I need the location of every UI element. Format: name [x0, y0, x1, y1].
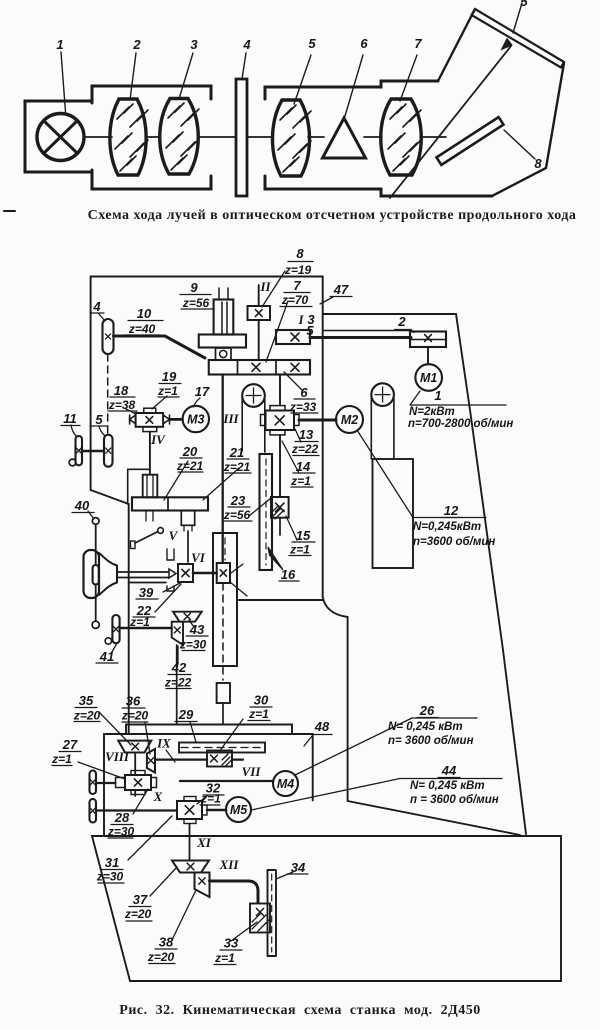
svg-text:12: 12 — [444, 503, 459, 518]
ball handle 11 — [69, 459, 76, 466]
svg-text:17: 17 — [195, 384, 210, 399]
shaft I gear 7 — [276, 330, 310, 344]
svg-text:III: III — [222, 411, 239, 426]
leader 30 — [219, 719, 243, 752]
svg-text:18: 18 — [114, 383, 129, 398]
shaft IV — [149, 432, 151, 475]
leader 28 — [133, 789, 148, 814]
leader 8 — [262, 271, 285, 307]
svg-text:36: 36 — [126, 694, 141, 709]
bearing brackets at V — [167, 549, 174, 591]
svg-text:14: 14 — [296, 459, 311, 474]
svg-text:II: II — [259, 279, 271, 294]
gear 8 box — [248, 306, 271, 320]
svg-text:VII: VII — [242, 764, 262, 779]
lens 5 — [272, 100, 309, 176]
shaft III solid — [222, 375, 224, 564]
svg-text:7: 7 — [414, 36, 422, 51]
shaft below bevel 42 — [176, 645, 178, 724]
shaft XI — [189, 824, 191, 861]
svg-text:27: 27 — [62, 737, 78, 752]
wire 11-5 — [82, 450, 104, 453]
svg-text:I: I — [297, 312, 304, 327]
leader 31 — [128, 816, 172, 860]
capsule 4 — [103, 319, 114, 354]
bevel pair XI/XII — [172, 861, 209, 873]
dashed shaft upper — [107, 354, 109, 434]
svg-text:N= 0,245 кВт: N= 0,245 кВт — [388, 721, 463, 733]
svg-text:n=3600 об/мин: n=3600 об/мин — [413, 536, 495, 548]
bevel 36 — [147, 749, 155, 773]
bevel 35 — [118, 741, 151, 753]
svg-text:VIII: VIII — [105, 749, 130, 764]
frame 47 — [91, 277, 323, 598]
leader 13 — [295, 429, 301, 442]
leader 37 — [150, 867, 177, 896]
svg-text:4: 4 — [242, 37, 251, 52]
leader 16 — [268, 547, 283, 570]
gearbox 24 — [217, 563, 230, 583]
machine top outline — [323, 314, 526, 834]
shaft VI dashed — [222, 583, 224, 680]
ledge + column outline — [238, 597, 520, 835]
bevel 43 — [173, 612, 202, 622]
svg-text:XI: XI — [196, 835, 212, 850]
svg-text:VI: VI — [191, 550, 206, 565]
svg-text:z=56: z=56 — [182, 296, 210, 310]
shaft of 13 down — [279, 375, 281, 498]
shaft VIII — [134, 753, 136, 797]
leader 6 — [284, 372, 303, 391]
svg-text:z=1: z=1 — [200, 792, 221, 806]
prism 6 — [323, 118, 366, 158]
svg-text:n=700-2800 об/мин: n=700-2800 об/мин — [408, 418, 513, 430]
leader 5b — [99, 426, 105, 436]
svg-text:z=70: z=70 — [281, 293, 309, 307]
leader 48 — [304, 735, 332, 747]
wire 32-M5 — [207, 809, 226, 812]
leader 39 — [163, 583, 180, 592]
leader 11 — [71, 425, 77, 437]
motor M3 — [183, 406, 209, 432]
svg-text:z=40: z=40 — [128, 322, 156, 336]
svg-text:z=1: z=1 — [289, 543, 310, 557]
svg-text:z=1: z=1 — [51, 752, 72, 766]
leader 7 — [266, 301, 288, 362]
sleeve on IV — [143, 475, 158, 498]
leader 43 — [189, 620, 194, 627]
lower unit frame 48 — [104, 734, 313, 836]
svg-text:1: 1 — [434, 388, 441, 403]
svg-text:M2: M2 — [341, 413, 358, 427]
svg-text:34: 34 — [291, 860, 306, 875]
svg-text:26: 26 — [419, 703, 435, 718]
svg-text:N=2кВт: N=2кВт — [409, 406, 455, 418]
svg-text:z=20: z=20 — [121, 709, 149, 723]
leader 20 — [164, 461, 188, 500]
gear 33 box — [250, 904, 270, 933]
svg-text:z=56: z=56 — [223, 508, 251, 522]
svg-text:z=22: z=22 — [164, 676, 192, 690]
svg-text:z=20: z=20 — [124, 907, 152, 921]
svg-text:3: 3 — [190, 37, 198, 52]
gearbox 32/X — [177, 801, 202, 819]
leader 21 — [203, 468, 239, 500]
hanging box — [217, 683, 230, 703]
optical housing left — [25, 101, 92, 172]
leader 42 — [177, 646, 179, 664]
sleeve 25 — [213, 533, 237, 666]
leader 25 — [231, 564, 243, 573]
lens 7 — [381, 99, 422, 175]
inner box corner — [128, 469, 150, 504]
svg-text:48: 48 — [314, 719, 330, 734]
svg-text:n= 3600 об/мин: n= 3600 об/мин — [388, 735, 474, 747]
leader 32 — [197, 795, 208, 804]
gear bar 20/21 — [132, 497, 208, 510]
wire 41-43 — [120, 627, 172, 630]
svg-text:z=30: z=30 — [107, 825, 135, 839]
svg-text:z=20: z=20 — [147, 950, 175, 964]
svg-text:5: 5 — [95, 412, 103, 427]
svg-text:z=30: z=30 — [179, 638, 207, 652]
leader 40 — [88, 511, 94, 519]
svg-text:5: 5 — [520, 0, 528, 9]
shaft V wires — [117, 572, 169, 583]
leaders optical — [4, 3, 535, 211]
big gear bar z=70 — [209, 360, 310, 375]
svg-text:XII: XII — [219, 857, 240, 872]
leader 22 — [155, 584, 181, 612]
svg-text:1: 1 — [56, 37, 63, 52]
motor M2 — [336, 406, 363, 433]
svg-text:N=0,245кВт: N=0,245кВт — [413, 521, 481, 533]
leader 44 — [251, 779, 502, 811]
svg-text:41: 41 — [99, 649, 114, 664]
svg-text:IV: IV — [150, 432, 166, 447]
lens 3 — [160, 99, 199, 175]
motor M4 — [273, 771, 298, 796]
gear 9 sleeve — [214, 300, 234, 335]
leader 27 — [78, 762, 125, 779]
bar 29 — [179, 743, 265, 753]
shaft VII wires — [96, 782, 116, 784]
motor M1 — [427, 347, 429, 364]
leader 29 — [190, 722, 196, 742]
svg-text:40: 40 — [74, 498, 90, 513]
shaft from capsule 4 — [114, 336, 206, 358]
leader 23 — [249, 498, 271, 516]
svg-text:42: 42 — [171, 660, 187, 675]
leader 4 — [90, 313, 105, 321]
belt lines — [242, 398, 394, 459]
leader 15 — [286, 516, 297, 540]
svg-text:8: 8 — [296, 246, 304, 261]
motor M5 — [226, 797, 251, 822]
leader 35 — [99, 712, 131, 745]
pulley right — [371, 383, 394, 406]
svg-text:23: 23 — [230, 493, 246, 508]
svg-text:31: 31 — [105, 855, 119, 870]
leader 2 — [395, 330, 415, 333]
leader 38 — [172, 890, 196, 940]
leader 17 — [194, 398, 201, 407]
handwheel — [84, 550, 100, 598]
bearing on shaft III — [216, 348, 232, 360]
svg-text:20: 20 — [182, 444, 198, 459]
svg-text:15: 15 — [296, 528, 311, 543]
optical axis — [84, 136, 446, 138]
lens 2 — [110, 99, 146, 175]
svg-text:39: 39 — [139, 585, 154, 600]
hub below bar — [181, 511, 194, 526]
svg-text:N= 0,245 кВт: N= 0,245 кВт — [410, 780, 485, 792]
leader 12 — [357, 430, 486, 518]
svg-text:V: V — [169, 528, 179, 543]
svg-text:M5: M5 — [230, 803, 248, 817]
svg-text:z=30: z=30 — [96, 870, 124, 884]
svg-text:z=1: z=1 — [290, 474, 311, 488]
leader 14 — [282, 441, 299, 473]
svg-text:z=22: z=22 — [291, 442, 319, 456]
capsule 5 — [104, 435, 113, 467]
block 12 — [373, 459, 414, 568]
svg-text:4: 4 — [92, 299, 101, 314]
svg-text:5: 5 — [306, 323, 314, 338]
base rect — [92, 836, 561, 981]
svg-text:11: 11 — [63, 411, 77, 426]
svg-text:21: 21 — [229, 445, 244, 460]
pulley left — [242, 384, 265, 407]
svg-text:29: 29 — [178, 707, 194, 722]
leader 34 — [276, 872, 293, 879]
gearbox V (39) — [178, 564, 193, 582]
svg-text:z=21: z=21 — [223, 460, 251, 474]
shaft X wire — [96, 809, 177, 811]
svg-text:z=20: z=20 — [73, 709, 101, 723]
svg-text:z=19: z=19 — [284, 263, 312, 277]
leader 18 — [126, 409, 136, 414]
svg-text:35: 35 — [79, 693, 94, 708]
svg-text:z=1: z=1 — [129, 615, 150, 629]
lamp 1 — [37, 114, 84, 161]
svg-text:2: 2 — [132, 37, 141, 52]
svg-text:10: 10 — [137, 306, 152, 321]
capsule 11 — [76, 436, 83, 465]
rack 16 — [260, 454, 273, 570]
shift lever + pivot — [131, 541, 136, 549]
gear 23/15 box — [271, 497, 289, 518]
leader 1 — [410, 391, 506, 405]
svg-text:п = 3600 об/мин: п = 3600 об/мин — [410, 794, 499, 806]
svg-text:Рис. 32. Кинематическая схе: Рис. 32. Кинематическая схема станка мод… — [119, 1003, 480, 1018]
svg-text:13: 13 — [299, 427, 314, 442]
svg-text:M3: M3 — [187, 413, 204, 427]
optical housing right — [265, 81, 438, 99]
leader 26 — [295, 718, 477, 775]
svg-text:z=21: z=21 — [176, 459, 204, 473]
svg-text:M4: M4 — [277, 777, 294, 791]
svg-text:IX: IX — [156, 736, 171, 751]
gear 30 box — [207, 751, 232, 767]
gearbox 13 — [266, 411, 295, 431]
svg-text:6: 6 — [360, 36, 368, 51]
leader 33 — [231, 922, 257, 941]
leader 47 — [320, 297, 333, 304]
gear 10 bar — [199, 335, 246, 348]
bar 2 — [410, 332, 446, 348]
plate 4 — [236, 79, 247, 196]
svg-text:33: 33 — [224, 936, 239, 951]
svg-text:z=1: z=1 — [248, 707, 269, 721]
svg-text:z=1: z=1 — [157, 384, 178, 398]
svg-text:8: 8 — [534, 156, 542, 171]
screen 5 tilted — [472, 9, 565, 68]
leader 24 — [230, 582, 247, 596]
wire 13-M2 — [299, 419, 336, 422]
svg-text:z=33: z=33 — [289, 400, 317, 414]
svg-text:6: 6 — [300, 385, 308, 400]
svg-text:2: 2 — [397, 314, 406, 329]
svg-text:38: 38 — [159, 935, 174, 950]
capsules left dials — [90, 771, 97, 795]
svg-text:z=38: z=38 — [108, 398, 136, 412]
svg-text:z=1: z=1 — [214, 951, 235, 965]
capsule 41 — [112, 615, 119, 643]
rack 34 — [268, 870, 277, 956]
leader 19 — [152, 396, 167, 409]
svg-text:16: 16 — [281, 567, 296, 582]
ray arrow — [390, 46, 511, 198]
shaft I to bar 2 — [310, 336, 411, 339]
svg-text:M1: M1 — [420, 371, 437, 385]
svg-text:30: 30 — [254, 693, 269, 708]
shaft II — [258, 285, 260, 360]
svg-text:19: 19 — [162, 369, 177, 384]
shaft XII wire — [210, 881, 259, 903]
svg-text:Схема хода лучей в оптическом: Схема хода лучей в оптическом отсчетном … — [88, 208, 577, 223]
svg-text:7: 7 — [293, 278, 301, 293]
svg-text:44: 44 — [441, 763, 457, 778]
lever 40 — [92, 518, 99, 525]
svg-text:28: 28 — [114, 810, 130, 825]
svg-text:47: 47 — [333, 282, 349, 297]
mirror 8 — [437, 117, 504, 165]
svg-text:43: 43 — [189, 622, 205, 637]
gearbox 18 — [136, 413, 164, 427]
svg-text:5: 5 — [308, 36, 316, 51]
svg-text:X: X — [153, 789, 163, 804]
wire 18-M3 — [170, 418, 183, 421]
leader 41 — [112, 644, 117, 652]
leader IX — [166, 750, 175, 762]
shaft IX — [155, 758, 243, 760]
leader 36 — [145, 722, 150, 754]
gearbox 27 — [125, 775, 151, 790]
svg-text:9: 9 — [190, 280, 198, 295]
svg-text:37: 37 — [133, 892, 148, 907]
